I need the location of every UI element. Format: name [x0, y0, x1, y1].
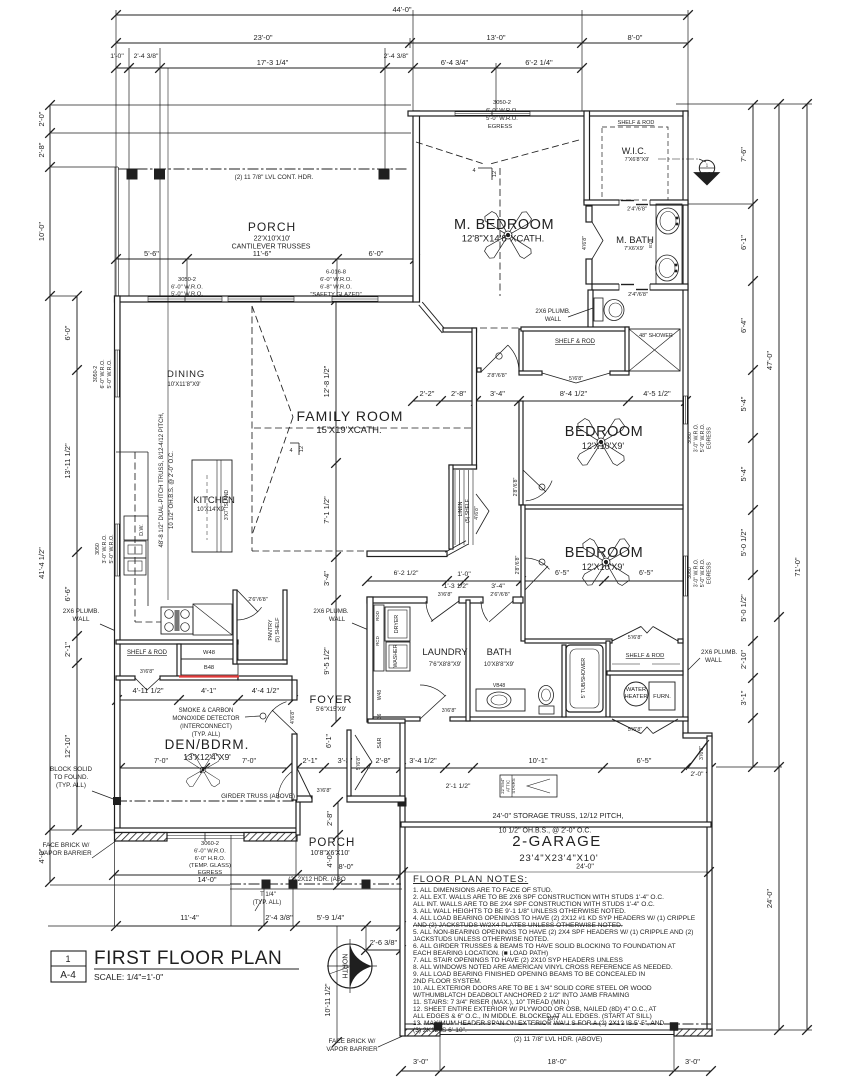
svg-text:"SAFETY GLAZED": "SAFETY GLAZED" [310, 292, 361, 298]
svg-text:11'-4": 11'-4" [180, 913, 199, 922]
svg-text:6'-4 3/4": 6'-4 3/4" [441, 58, 469, 67]
svg-text:PANTRY: PANTRY [268, 619, 274, 640]
svg-text:2'-10": 2'-10" [739, 650, 748, 669]
svg-text:B12: B12 [648, 240, 653, 249]
svg-text:2'-8": 2'-8" [37, 142, 46, 157]
svg-text:23'4"X23'4"X10': 23'4"X23'4"X10' [519, 853, 598, 864]
svg-text:BLOCK SOLID: BLOCK SOLID [50, 766, 92, 773]
svg-text:SCALE: 1/4"=1'-0": SCALE: 1/4"=1'-0" [94, 972, 163, 982]
svg-text:7'6"X8'8"X9': 7'6"X8'8"X9' [429, 662, 461, 668]
svg-text:13'X12'4"X9': 13'X12'4"X9' [183, 752, 231, 762]
svg-text:EGRESS: EGRESS [198, 870, 222, 876]
svg-text:LINEN: LINEN [458, 501, 464, 516]
svg-text:7'-6": 7'-6" [739, 147, 748, 162]
svg-text:10'-0": 10'-0" [37, 222, 46, 241]
svg-text:CANTILEVER TRUSSES: CANTILEVER TRUSSES [232, 244, 311, 251]
svg-text:B48: B48 [204, 665, 214, 671]
svg-text:6'-0" H.R.O.: 6'-0" H.R.O. [195, 856, 226, 862]
svg-text:FLOOR PLAN NOTES:: FLOOR PLAN NOTES: [413, 874, 528, 885]
svg-text:ROD: ROD [375, 611, 380, 621]
svg-text:2'4"/6'8": 2'4"/6'8" [627, 207, 647, 213]
svg-text:ALL INT. WALLS ARE TO BE 2X4 S: ALL INT. WALLS ARE TO BE 2X4 SPF CONSTRU… [413, 901, 655, 908]
svg-text:3'X7' ISLAND: 3'X7' ISLAND [224, 489, 230, 520]
svg-text:HEATER: HEATER [624, 694, 647, 700]
svg-text:1'-0": 1'-0" [110, 53, 124, 60]
svg-text:SHELF & ROD: SHELF & ROD [555, 339, 596, 345]
svg-text:44'-0": 44'-0" [392, 5, 411, 14]
svg-text:4'-1": 4'-1" [201, 686, 216, 695]
svg-text:4'/6'8": 4'/6'8" [582, 236, 588, 250]
svg-text:PORCH: PORCH [309, 837, 356, 849]
svg-text:5'-0 1/2": 5'-0 1/2" [739, 528, 748, 556]
svg-text:3'-0" W.R.O.: 3'-0" W.R.O. [694, 424, 700, 453]
svg-text:5'6"X15'X9': 5'6"X15'X9' [316, 707, 346, 713]
svg-text:3'/6'8": 3'/6'8" [438, 592, 453, 598]
svg-text:10. ALL EXTERIOR DOORS ARE TO: 10. ALL EXTERIOR DOORS ARE TO BE 1 3/4" … [413, 985, 652, 992]
svg-text:2'-6 3/8": 2'-6 3/8" [370, 938, 398, 947]
svg-text:2'-1": 2'-1" [303, 756, 318, 765]
svg-text:3060-2: 3060-2 [201, 841, 219, 847]
svg-text:48'-8 1/2" DUAL-PITCH TRUSS, 8: 48'-8 1/2" DUAL-PITCH TRUSS, 8/12-4/12 P… [159, 412, 165, 547]
svg-text:10'X8'8"X9': 10'X8'8"X9' [484, 662, 514, 668]
svg-text:SHELF & ROD: SHELF & ROD [626, 653, 665, 659]
svg-text:EGRESS: EGRESS [707, 427, 713, 449]
svg-text:7. ALL STAIR OPENINGS TO HAVE: 7. ALL STAIR OPENINGS TO HAVE (2) 2X10 S… [413, 957, 623, 964]
svg-text:5'-6": 5'-6" [144, 249, 159, 258]
svg-text:5. ALL NON-BEARING OPENINGS T: 5. ALL NON-BEARING OPENINGS TO HAVE (2) … [413, 929, 693, 936]
svg-text:2'-4 3/8": 2'-4 3/8" [134, 53, 159, 60]
svg-text:3'/6'8": 3'/6'8" [140, 669, 154, 675]
svg-text:WALL: WALL [705, 657, 722, 664]
svg-text:18'-0": 18'-0" [547, 1057, 566, 1066]
svg-text:8'-0": 8'-0" [628, 33, 643, 42]
svg-text:6'-0" W.R.O.: 6'-0" W.R.O. [171, 285, 203, 291]
svg-text:48" SHOWER: 48" SHOWER [639, 333, 673, 339]
svg-text:7'-1 1/2": 7'-1 1/2" [322, 496, 331, 524]
svg-text:ATTIC: ATTIC [506, 780, 511, 792]
svg-text:12'-8 1/2": 12'-8 1/2" [322, 365, 331, 397]
svg-text:4. ALL LOAD BEARING OPENINGS: 4. ALL LOAD BEARING OPENINGS TO HAVE (2)… [413, 915, 696, 922]
svg-text:W48: W48 [377, 690, 383, 701]
svg-text:47'-0": 47'-0" [765, 351, 774, 370]
svg-text:10 1/2" OH.B.S. @ 2'-0" O.C.: 10 1/2" OH.B.S. @ 2'-0" O.C. [169, 451, 175, 529]
svg-text:1'-0": 1'-0" [457, 571, 471, 578]
svg-text:4'-5 1/2": 4'-5 1/2" [643, 389, 671, 398]
svg-text:VB48: VB48 [493, 683, 505, 689]
svg-text:3050-2: 3050-2 [493, 100, 511, 106]
svg-text:5'/6'8": 5'/6'8" [356, 756, 362, 770]
svg-text:SHELF & ROD: SHELF & ROD [618, 120, 655, 126]
svg-text:3'-4": 3'-4" [491, 583, 505, 590]
svg-text:ALL EDGES & 6" O.C., IN MIDDLE: ALL EDGES & 6" O.C., IN MIDDLE. BLOCKED … [413, 1013, 652, 1020]
svg-text:4: 4 [472, 168, 475, 174]
svg-text:T 1/4": T 1/4" [260, 892, 276, 898]
svg-text:4'-11 1/2": 4'-11 1/2" [132, 686, 163, 695]
svg-text:FOYER: FOYER [310, 694, 353, 706]
svg-text:5'/6'8": 5'/6'8" [628, 635, 643, 641]
svg-text:6'-0": 6'-0" [63, 325, 72, 340]
svg-text:(TYP. ALL): (TYP. ALL) [56, 782, 86, 789]
svg-text:A-4: A-4 [60, 970, 76, 981]
svg-text:(3) 2X12 IS 6'-10".: (3) 2X12 IS 6'-10". [413, 1027, 467, 1034]
svg-text:STAIRS: STAIRS [511, 778, 516, 793]
svg-text:DINING: DINING [167, 369, 205, 380]
svg-text:S&R: S&R [377, 737, 383, 748]
svg-text:5'-0" W.R.O.: 5'-0" W.R.O. [700, 559, 706, 588]
svg-text:2'8"/6'8": 2'8"/6'8" [513, 478, 519, 497]
svg-text:(2) 11 7/8" LVL CONT. HDR.: (2) 11 7/8" LVL CONT. HDR. [235, 174, 314, 181]
svg-text:17'-3 1/4": 17'-3 1/4" [257, 58, 289, 67]
svg-text:3'-0": 3'-0" [413, 1057, 428, 1066]
svg-text:6'-8" W.R.O.: 6'-8" W.R.O. [320, 285, 352, 291]
svg-text:FURN.: FURN. [653, 694, 671, 700]
svg-text:(2) 2X12 HDR. (ABO: (2) 2X12 HDR. (ABO [288, 876, 346, 883]
svg-text:4: 4 [289, 448, 292, 454]
svg-text:WATER: WATER [626, 687, 646, 693]
svg-text:SHELF & ROD: SHELF & ROD [127, 650, 168, 656]
svg-text:9'-5 1/2": 9'-5 1/2" [322, 647, 331, 675]
svg-text:(5) SHELF: (5) SHELF [465, 499, 471, 523]
svg-text:12'-10": 12'-10" [63, 735, 72, 759]
svg-text:6'-0" W.R.O.: 6'-0" W.R.O. [194, 849, 226, 855]
svg-text:5'-0" W.R.O.: 5'-0" W.R.O. [171, 292, 203, 298]
svg-text:10'X14'X9': 10'X14'X9' [197, 507, 225, 513]
svg-text:5'-0" W.R.O.: 5'-0" W.R.O. [486, 116, 518, 122]
svg-text:13. MAXIMUM HEADER SPAN ON EXT: 13. MAXIMUM HEADER SPAN ON EXTERIOR WALL… [413, 1020, 665, 1027]
svg-text:W/THUMBLATCH DEADBOLT ANCHORED: W/THUMBLATCH DEADBOLT ANCHORED 2 1/2" IN… [413, 992, 630, 999]
svg-text:6'-0" W.R.O.: 6'-0" W.R.O. [100, 359, 106, 388]
svg-text:(INTERCONNECT): (INTERCONNECT) [180, 724, 232, 730]
svg-text:8. ALL WINDOWS NOTED ARE AMER: 8. ALL WINDOWS NOTED ARE AMERICAN VINYL … [413, 964, 673, 971]
svg-text:W.I.C.: W.I.C. [622, 146, 647, 156]
svg-text:2'6"/6'8": 2'6"/6'8" [248, 597, 267, 603]
svg-text:NORTH: NORTH [341, 954, 348, 979]
svg-text:FACE BRICK W/: FACE BRICK W/ [329, 1038, 376, 1045]
svg-text:2'-8": 2'-8" [376, 756, 391, 765]
svg-text:8'-0": 8'-0" [339, 862, 354, 871]
svg-text:12'8"X14'8"XCATH.: 12'8"X14'8"XCATH. [462, 234, 545, 245]
svg-text:EGRESS: EGRESS [488, 124, 512, 130]
svg-text:3'-4": 3'-4" [322, 571, 331, 586]
svg-text:2'-8": 2'-8" [325, 811, 334, 826]
svg-text:12: 12 [492, 171, 498, 177]
svg-text:2'-1": 2'-1" [63, 642, 72, 657]
svg-text:18'/T: 18'/T [547, 1016, 560, 1022]
svg-text:1: 1 [65, 954, 70, 964]
svg-text:(TEMP. GLASS): (TEMP. GLASS) [189, 863, 231, 869]
svg-text:8'-4 1/2": 8'-4 1/2" [560, 389, 588, 398]
svg-text:W48: W48 [203, 650, 215, 656]
svg-text:5' TUB/SHOWER: 5' TUB/SHOWER [581, 658, 587, 699]
svg-text:2'4"/6'8": 2'4"/6'8" [628, 292, 648, 298]
svg-text:6'-0": 6'-0" [369, 249, 384, 258]
svg-text:1'-3 1/2": 1'-3 1/2" [444, 583, 469, 590]
svg-text:(2) 11 7/8" LVL HDR. (ABOVE): (2) 11 7/8" LVL HDR. (ABOVE) [514, 1036, 603, 1043]
svg-text:7'X6'8"X9': 7'X6'8"X9' [625, 157, 650, 163]
svg-text:2'-8": 2'-8" [451, 389, 466, 398]
svg-text:6'-4": 6'-4" [739, 318, 748, 333]
svg-text:3050-2: 3050-2 [178, 277, 196, 283]
svg-text:6'-5": 6'-5" [639, 570, 653, 577]
svg-text:3. ALL WALL HEIGHTS TO BE 9'-: 3. ALL WALL HEIGHTS TO BE 9'-1 1/8" UNLE… [413, 908, 626, 915]
svg-text:2-GARAGE: 2-GARAGE [512, 833, 602, 850]
svg-text:LAUNDRY: LAUNDRY [422, 647, 468, 658]
svg-text:7'-0": 7'-0" [242, 758, 256, 765]
svg-text:6'-0" W.R.O.: 6'-0" W.R.O. [486, 108, 518, 114]
svg-text:2ND FLOOR SYSTEM.: 2ND FLOOR SYSTEM. [413, 978, 482, 985]
svg-text:2X6 PLUMB.: 2X6 PLUMB. [535, 308, 571, 315]
svg-text:3'-0": 3'-0" [685, 1057, 700, 1066]
svg-text:1. ALL DIMENSIONS ARE TO FACE: 1. ALL DIMENSIONS ARE TO FACE OF STUD. [413, 887, 553, 894]
svg-text:FIRST FLOOR PLAN: FIRST FLOOR PLAN [94, 948, 282, 969]
svg-text:2'-0": 2'-0" [691, 771, 705, 778]
svg-text:PORCH: PORCH [248, 220, 296, 234]
svg-text:2X6 PLUMB.: 2X6 PLUMB. [701, 649, 738, 656]
svg-text:6'-1": 6'-1" [739, 235, 748, 250]
svg-text:6. ALL GIRDER TRUSSES & BEAMS: 6. ALL GIRDER TRUSSES & BEAMS TO HAVE SO… [413, 943, 676, 950]
svg-text:13'-11 1/2": 13'-11 1/2" [63, 443, 72, 479]
svg-text:14'-0": 14'-0" [197, 875, 216, 884]
svg-text:D.W.: D.W. [139, 524, 145, 535]
svg-text:6'-5": 6'-5" [637, 756, 652, 765]
svg-text:6'-0" W.R.O.: 6'-0" W.R.O. [320, 277, 352, 283]
svg-text:2'-4 3/8": 2'-4 3/8" [265, 913, 293, 922]
svg-text:12. SHEET ENTIRE EXTERIOR W/ P: 12. SHEET ENTIRE EXTERIOR W/ PLYWOOD OR … [413, 1006, 656, 1013]
svg-text:3'/6'8": 3'/6'8" [317, 788, 332, 794]
svg-text:2'8"/6'8": 2'8"/6'8" [515, 556, 521, 575]
svg-text:2X6 PLUMB.: 2X6 PLUMB. [63, 608, 100, 615]
svg-text:RCD: RCD [375, 636, 380, 646]
svg-text:3'-0" W.R.O.: 3'-0" W.R.O. [102, 534, 108, 563]
svg-text:2'6"/6'8": 2'6"/6'8" [490, 592, 509, 598]
svg-text:5'/6'8": 5'/6'8" [569, 376, 583, 382]
svg-text:FACE BRICK W/: FACE BRICK W/ [43, 842, 90, 849]
svg-text:7'-0": 7'-0" [154, 758, 168, 765]
svg-text:22"X54": 22"X54" [500, 778, 505, 794]
svg-text:9. ALL LOAD BEARING FINISHED: 9. ALL LOAD BEARING FINISHED OPENING BEA… [413, 971, 645, 978]
svg-text:FAMILY ROOM: FAMILY ROOM [297, 408, 404, 424]
svg-text:5'-0 1/2": 5'-0 1/2" [739, 594, 748, 622]
svg-text:6-016-8: 6-016-8 [326, 270, 346, 276]
svg-text:3'-1": 3'-1" [739, 690, 748, 705]
svg-text:TO FOUND.: TO FOUND. [54, 774, 89, 781]
svg-text:6'-2 1/4": 6'-2 1/4" [525, 58, 553, 67]
svg-text:6'-2 1/2": 6'-2 1/2" [394, 570, 419, 577]
svg-text:2'-4 3/8": 2'-4 3/8" [384, 53, 409, 60]
svg-text:2'8"/6'8": 2'8"/6'8" [487, 373, 506, 379]
svg-text:5'-9 1/4": 5'-9 1/4" [317, 913, 345, 922]
svg-text:3'-0" W.R.O.: 3'-0" W.R.O. [694, 559, 700, 588]
svg-text:3050-2: 3050-2 [93, 366, 99, 383]
svg-text:3'-4": 3'-4" [490, 389, 505, 398]
svg-text:4'/6'8": 4'/6'8" [474, 506, 480, 520]
svg-text:3'-4 1/2": 3'-4 1/2" [409, 756, 437, 765]
svg-text:10'8"X6'X10': 10'8"X6'X10' [310, 850, 349, 857]
svg-text:SMOKE & CARBON: SMOKE & CARBON [179, 708, 234, 714]
svg-text:3050: 3050 [95, 543, 101, 555]
svg-text:5'-0" W.R.O.: 5'-0" W.R.O. [700, 424, 706, 453]
svg-text:2X6 PLUMB.: 2X6 PLUMB. [313, 608, 349, 615]
svg-text:3'/6'8": 3'/6'8" [699, 746, 705, 760]
svg-text:AND (2) JACKSTUDS W/2X4 PLATES: AND (2) JACKSTUDS W/2X4 PLATES UNLESS OT… [413, 922, 623, 929]
svg-text:2'-2": 2'-2" [420, 389, 435, 398]
svg-text:BEDROOM: BEDROOM [565, 424, 643, 440]
svg-text:7'X6'X9': 7'X6'X9' [624, 246, 644, 252]
svg-text:15'X19'XCATH.: 15'X19'XCATH. [316, 425, 381, 436]
svg-text:(TYP. ALL): (TYP. ALL) [253, 900, 282, 906]
svg-text:12: 12 [299, 446, 305, 452]
svg-text:EGRESS: EGRESS [707, 562, 713, 584]
svg-text:BATH: BATH [487, 647, 512, 658]
svg-text:23'-0": 23'-0" [253, 33, 272, 42]
svg-text:6'-6": 6'-6" [63, 586, 72, 601]
svg-text:(5) SHELF: (5) SHELF [275, 617, 281, 643]
svg-text:10'X11'8"X9': 10'X11'8"X9' [167, 382, 200, 388]
svg-text:3'/6'8": 3'/6'8" [442, 708, 457, 714]
svg-text:4'-4 1/2": 4'-4 1/2" [252, 686, 280, 695]
svg-text:22'X10'X10': 22'X10'X10' [254, 236, 291, 243]
svg-text:13'-0": 13'-0" [486, 33, 505, 42]
svg-text:24'-0": 24'-0" [765, 889, 774, 908]
svg-text:24'-0": 24'-0" [576, 864, 594, 871]
svg-text:2. ALL EXT. WALLS ARE TO BE 2: 2. ALL EXT. WALLS ARE TO BE 2X6 SPF CONS… [413, 894, 664, 901]
svg-text:24'-0" STORAGE TRUSS, 12/12 PI: 24'-0" STORAGE TRUSS, 12/12 PITCH, [492, 811, 623, 820]
svg-text:4'/6'8": 4'/6'8" [290, 710, 296, 724]
svg-text:5'-4": 5'-4" [739, 466, 748, 481]
svg-text:VAPOR BARRIER: VAPOR BARRIER [40, 850, 92, 857]
svg-text:DEN/BDRM.: DEN/BDRM. [165, 737, 250, 752]
svg-text:41'-4 1/2": 41'-4 1/2" [37, 547, 46, 579]
svg-text:DRYER: DRYER [394, 615, 400, 634]
svg-text:10'-1": 10'-1" [528, 756, 547, 765]
svg-text:5'-4": 5'-4" [739, 396, 748, 411]
svg-text:6'-5": 6'-5" [555, 570, 569, 577]
svg-text:WALL: WALL [73, 616, 90, 623]
svg-text:6'-1": 6'-1" [326, 734, 333, 748]
svg-text:WALL: WALL [329, 616, 346, 623]
svg-text:EACH BEARING LOCATION. (■ LOAD: EACH BEARING LOCATION. (■ LOAD PATH) [413, 950, 548, 957]
svg-text:M. BEDROOM: M. BEDROOM [454, 217, 554, 233]
svg-text:WASHER: WASHER [393, 644, 399, 667]
svg-text:5'-0" W.R.O.: 5'-0" W.R.O. [107, 359, 113, 388]
svg-text:11. STAIRS: 7 3/4" RISER (MAX: 11. STAIRS: 7 3/4" RISER (MAX.), 10" TRE… [413, 999, 569, 1006]
svg-text:WALL: WALL [545, 316, 562, 323]
svg-text:5'/6'8": 5'/6'8" [628, 727, 643, 733]
svg-text:GIRDER TRUSS (ABOVE): GIRDER TRUSS (ABOVE) [221, 793, 295, 800]
svg-text:71'-0": 71'-0" [793, 557, 802, 576]
svg-text:10'-11 1/2": 10'-11 1/2" [325, 983, 332, 1016]
svg-text:JACKSTUDS UNLESS OTHERWISE NOT: JACKSTUDS UNLESS OTHERWISE NOTED. [413, 936, 549, 943]
svg-text:VAPOR BARRIER: VAPOR BARRIER [326, 1046, 378, 1053]
svg-text:2'-0": 2'-0" [37, 111, 46, 126]
svg-text:MONOXIDE DETECTOR: MONOXIDE DETECTOR [172, 716, 240, 722]
svg-text:2'-1 1/2": 2'-1 1/2" [446, 783, 471, 790]
